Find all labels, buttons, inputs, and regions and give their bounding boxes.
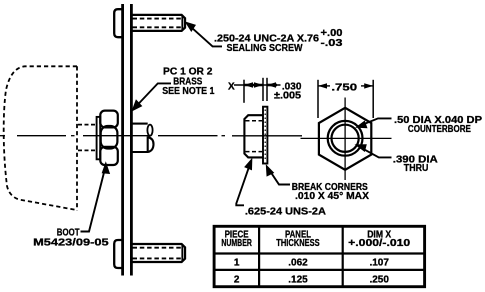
arrowhead .750 right xyxy=(364,83,373,88)
dimension .750 extension lines xyxy=(318,80,373,118)
arrowhead sealing screw leader xyxy=(186,23,195,31)
arrowhead PC/BRASS leader xyxy=(133,101,142,111)
arrowhead .750 left xyxy=(318,83,327,88)
leader: .625-24 UNS-2A xyxy=(236,161,251,205)
arrowhead counterbore leader xyxy=(357,122,366,128)
sealing screw top: threaded shaft xyxy=(132,15,186,31)
hexagon nut face view xyxy=(319,108,371,170)
centerline main assembly xyxy=(0,135,302,137)
sealing screw bottom: thread dashed lines xyxy=(133,248,184,259)
leader: PC 1 OR 2 BRASS callout xyxy=(134,83,171,109)
arrowhead X right xyxy=(254,82,263,87)
leader: sealing screw callout xyxy=(187,23,222,46)
panel (two vertical lines) xyxy=(123,4,132,276)
leader: thru hole callout xyxy=(358,146,392,158)
flange extension lines xyxy=(263,78,267,101)
arrowhead thru leader xyxy=(357,145,366,151)
svg-text:THICKNESS: THICKNESS xyxy=(276,238,320,249)
thru hole circle xyxy=(332,125,359,152)
arrowhead BOOT leader xyxy=(103,163,110,173)
arrowhead .030 xyxy=(267,82,276,87)
table header divider xyxy=(214,252,425,254)
table column divider 1 xyxy=(258,226,260,286)
svg-text:COUNTERBORE: COUNTERBORE xyxy=(408,124,471,135)
svg-text:2: 2 xyxy=(234,274,240,285)
bushing detail: body xyxy=(244,115,262,157)
bushing thread dashed lines xyxy=(246,121,263,152)
svg-text:.010 X 45° MAX: .010 X 45° MAX xyxy=(295,191,369,202)
svg-text:±.005: ±.005 xyxy=(274,91,301,102)
counterbore circle xyxy=(328,121,363,156)
arrowhead X left xyxy=(244,82,253,87)
boot dashed outline xyxy=(4,66,77,210)
svg-text:THRU: THRU xyxy=(404,163,429,174)
arrowhead .625 leader xyxy=(245,160,251,170)
hex nut side view xyxy=(100,111,118,165)
svg-text:+.000/-.010: +.000/-.010 xyxy=(348,238,411,249)
dimension X extension line xyxy=(243,80,245,103)
svg-text:M5423/09-05: M5423/09-05 xyxy=(33,237,109,248)
svg-text:.125: .125 xyxy=(288,274,308,285)
svg-text:X: X xyxy=(228,81,235,92)
cylinder stud behind panel xyxy=(132,124,153,152)
table outer border xyxy=(214,226,425,286)
leader: counterbore callout xyxy=(358,118,391,126)
svg-text:-.03: -.03 xyxy=(321,38,344,49)
sealing screw top: thread dashed lines xyxy=(133,19,184,28)
sealing screw bottom: threaded shaft xyxy=(132,244,186,262)
svg-text:.062: .062 xyxy=(288,258,308,269)
bushing detail: flange xyxy=(263,107,267,164)
thread runout ellipse on stud xyxy=(147,125,152,136)
dimension line X and .030 xyxy=(234,84,281,86)
dimension line .750 xyxy=(318,85,373,87)
arrowhead BREAK CORNERS leader xyxy=(267,166,274,176)
svg-text:NUMBER: NUMBER xyxy=(221,238,252,249)
svg-text:.625-24 UNS-2A: .625-24 UNS-2A xyxy=(245,206,326,217)
svg-text:.107: .107 xyxy=(369,258,389,269)
hex centerline horizontal xyxy=(301,137,392,139)
sealing screw top: head xyxy=(114,9,123,37)
svg-text:SEE NOTE 1: SEE NOTE 1 xyxy=(162,86,215,97)
svg-text:.250: .250 xyxy=(369,274,389,285)
sealing screw top: thread chamfer line xyxy=(181,16,183,31)
leader: BOOT callout xyxy=(81,165,106,232)
svg-text:SEALING SCREW: SEALING SCREW xyxy=(227,43,304,54)
hidden lines boot stem xyxy=(78,125,96,151)
leader: BREAK CORNERS xyxy=(268,168,290,185)
table row divider xyxy=(214,269,425,271)
sealing screw bottom: thread chamfer line xyxy=(181,245,183,262)
bushing flange hidden dotted line xyxy=(264,110,266,162)
svg-text:1: 1 xyxy=(234,258,240,269)
sealing screw bottom: head xyxy=(114,240,123,268)
washer (boot bead) xyxy=(97,117,101,159)
table column divider 2 xyxy=(342,226,344,286)
svg-text:.750: .750 xyxy=(331,82,357,93)
hex centerline vertical xyxy=(344,98,346,181)
